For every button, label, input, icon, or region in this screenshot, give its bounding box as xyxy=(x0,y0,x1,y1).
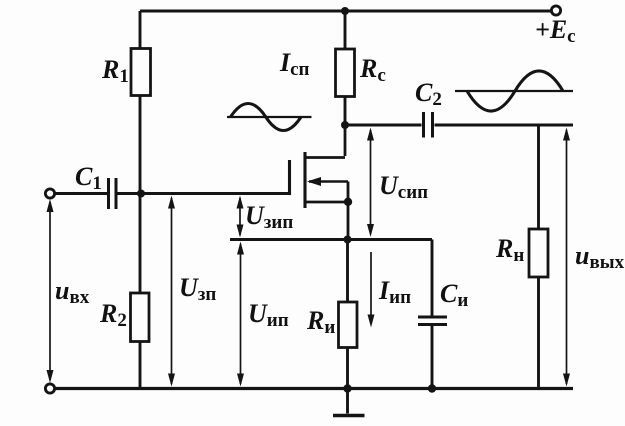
junction dot: gate node xyxy=(137,190,145,198)
wire: Ri top lead xyxy=(346,240,349,303)
wire: R1 top lead xyxy=(139,11,142,49)
svg-text:Cи: Cи xyxy=(440,279,468,311)
resistor R2 xyxy=(131,293,150,342)
ground xyxy=(333,389,365,416)
terminal +Ec xyxy=(551,6,560,15)
wire: drain line right of C2 (output line) xyxy=(435,124,574,127)
wire: R2 bottom lead xyxy=(139,342,142,389)
wire: Rc bottom lead to drain node xyxy=(344,97,347,126)
resistor R1 xyxy=(131,49,151,96)
sine wave: input signal symbol xyxy=(227,104,312,131)
svg-text:Uип: Uип xyxy=(248,299,289,331)
capacitor Ci xyxy=(418,317,447,325)
svg-text:Iсп: Iсп xyxy=(279,48,310,80)
wire: drain line left of C2 xyxy=(345,124,422,127)
svg-text:uвых: uвых xyxy=(575,241,625,273)
svg-text:Uзп: Uзп xyxy=(179,273,216,305)
svg-text:C2: C2 xyxy=(415,78,442,110)
svg-text:C1: C1 xyxy=(75,162,102,194)
wire: source node line xyxy=(230,238,432,241)
resistor Rc xyxy=(336,49,355,97)
svg-text:Rн: Rн xyxy=(495,234,524,266)
wire: Ci top lead xyxy=(431,240,434,316)
capacitor C1 xyxy=(109,178,117,209)
wire: Rn bottom lead xyxy=(537,277,540,389)
wire: Ri bottom lead xyxy=(346,348,349,389)
svg-text:Rс: Rс xyxy=(359,54,386,86)
arrow u_vyx (output voltage, double-headed) xyxy=(563,128,570,387)
wire: Rc top lead xyxy=(344,11,347,50)
junction dot: Ci at bottom rail xyxy=(428,384,436,392)
wire: input terminal to C1 xyxy=(55,192,108,195)
wire: Ci bottom lead xyxy=(431,326,434,389)
wire: bottom rail xyxy=(55,387,574,390)
arrow U_zp (gate-to-rail, double-headed) xyxy=(168,196,175,387)
wire: Rn top lead xyxy=(537,125,540,230)
svg-text:Uзип: Uзип xyxy=(245,201,293,233)
terminal input top xyxy=(45,189,54,198)
wire: gate line xyxy=(118,192,291,195)
svg-text:Iип: Iип xyxy=(378,276,411,308)
svg-text:R2: R2 xyxy=(99,299,127,331)
svg-text:Rи: Rи xyxy=(306,306,335,338)
arrow I_ip (source current, down) xyxy=(368,252,375,328)
transistor VT1 (MOSFET) xyxy=(290,125,349,240)
resistor Rn xyxy=(529,229,548,277)
arrow U_zip (gate-to-source, double-headed) xyxy=(237,196,244,238)
arrow u_vx (input voltage, double-headed) xyxy=(47,199,54,383)
arrow U_ip (source-to-rail, double-headed) xyxy=(237,242,244,387)
sine wave: output signal symbol xyxy=(455,71,573,111)
capacitor C2 xyxy=(424,112,433,138)
junction dot: Rc column at top rail xyxy=(341,7,349,15)
junction dot: substrate-source join xyxy=(344,198,352,206)
junction dot: source node xyxy=(344,236,352,244)
wire: R2 top lead xyxy=(139,194,142,294)
svg-text:R1: R1 xyxy=(101,55,129,87)
svg-text:Uсип: Uсип xyxy=(379,171,428,203)
junction dot: ground node xyxy=(343,384,351,392)
svg-text:+Eс: +Eс xyxy=(535,15,576,47)
arrow U_sip (drain-to-source, double-headed) xyxy=(367,128,374,238)
resistor Ri xyxy=(339,302,358,348)
junction dot: drain node xyxy=(341,121,349,129)
wire: top supply rail xyxy=(140,10,551,13)
svg-text:uвх: uвх xyxy=(55,276,90,308)
terminal input bottom xyxy=(45,384,54,393)
wire: R1 bottom lead to gate node xyxy=(139,96,142,194)
